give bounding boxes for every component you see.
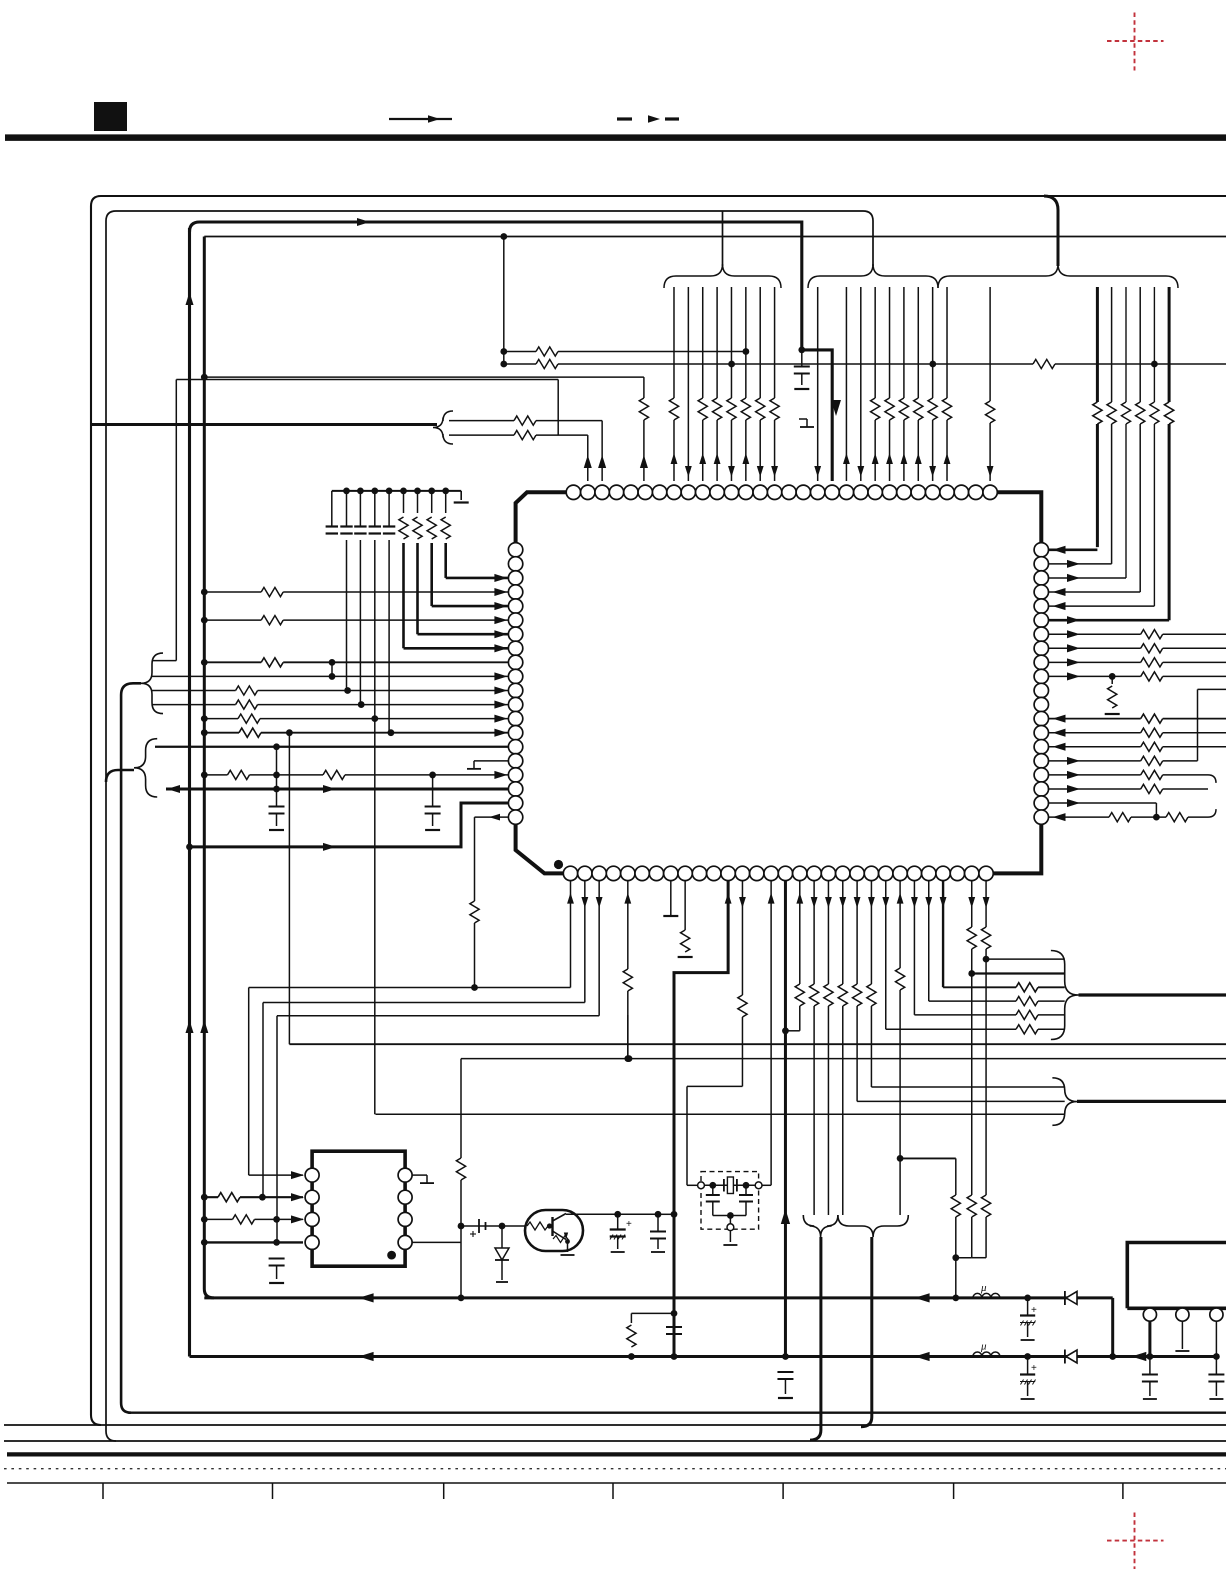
svg-text:μ: μ (980, 1341, 987, 1353)
svg-text:+: + (626, 1219, 632, 1230)
svg-text:μ: μ (980, 1282, 987, 1294)
svg-text:+: + (1031, 1363, 1037, 1374)
svg-text:+: + (1031, 1305, 1037, 1316)
